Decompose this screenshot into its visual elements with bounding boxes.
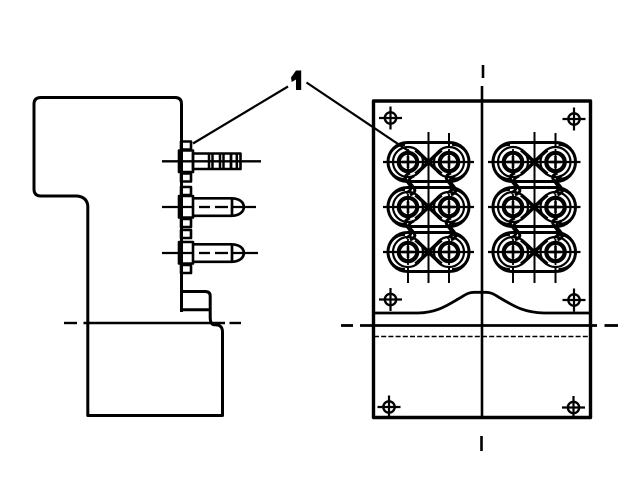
left group row 3: stadium + bores <box>383 233 474 272</box>
label 1 <box>291 71 301 91</box>
lower parting line <box>374 336 590 338</box>
stud 2 (middle) shaft with round nose <box>193 198 244 217</box>
left group row 2: stadium + bores <box>383 188 474 227</box>
right group row 2: stadium + bores <box>488 188 581 227</box>
right group row 1: stadium + bores <box>488 143 581 182</box>
right group connector squiggles rows 2-3 <box>510 218 562 240</box>
column stubs <box>555 133 557 146</box>
left group connector squiggles rows 2-3 <box>405 218 456 240</box>
stud 3 centerline <box>162 252 258 254</box>
column stubs <box>448 133 450 146</box>
right group connector squiggles rows 1-2 <box>510 173 562 195</box>
horizontal centerline <box>341 324 618 327</box>
plate outline <box>374 101 591 418</box>
stud 3 (bottom) shaft with round nose <box>193 244 244 263</box>
stud 1 (top) flange blocks <box>179 142 193 182</box>
stud 1 centerline <box>162 160 261 162</box>
right group row 3: stadium + bores <box>488 233 581 272</box>
leader line right <box>307 83 411 153</box>
vertical centerline <box>482 65 484 451</box>
interior step line <box>181 308 210 311</box>
gasket bump curve <box>375 292 590 313</box>
stud 2 centerline <box>162 206 256 208</box>
left view horizontal centerline <box>64 322 241 324</box>
stud 2 (middle) flange blocks <box>179 187 193 227</box>
corner holes with crosshairs <box>378 107 586 420</box>
left group connector squiggles rows 1-2 <box>405 173 456 195</box>
left group row 1: stadium + bores <box>383 143 474 182</box>
stud 1 (top) threaded shaft <box>193 154 241 170</box>
stud 3 (bottom) flange blocks <box>179 230 193 273</box>
leader line left <box>193 87 288 144</box>
left view main outline <box>34 98 223 416</box>
pair midline <box>428 132 430 283</box>
pair midline <box>534 132 536 283</box>
